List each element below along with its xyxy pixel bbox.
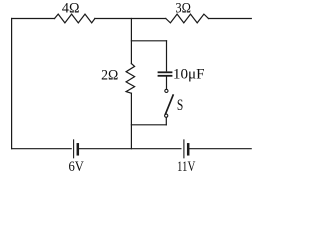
switch S lower contact circle [165,114,168,117]
wire capacitor to switch [166,77,168,90]
svg-text:S: S [177,97,183,114]
wire bottom-right segment [190,148,252,150]
wire top-left segment [12,18,55,20]
battery B1 6V short plate [77,144,80,154]
wire capacitor branch upper [166,41,168,71]
resistor R2 3ohm zigzag [166,14,209,23]
svg-text:11V: 11V [177,159,196,175]
capacitor C1 top plate [159,71,172,73]
switch S upper contact circle [165,89,168,92]
svg-text:3Ω: 3Ω [175,0,191,17]
wire middle branch upper [130,19,132,64]
resistor R3 2ohm zigzag [126,64,135,94]
wire switch to connector [165,117,167,124]
capacitor C1 bottom plate [159,75,172,77]
battery B2 11V long plate [183,140,185,158]
wire bottom-left segment [12,148,72,150]
resistor R1 4ohm zigzag [55,14,95,23]
battery B2 11V short plate [187,144,190,154]
wire left vertical [11,19,13,149]
wire top-middle segment [95,18,166,20]
svg-text:2Ω: 2Ω [101,67,118,84]
wire connector bottom [131,124,166,126]
wire top-right segment [209,18,252,20]
wire bottom-middle segment [79,148,181,150]
wire middle branch lower [130,93,132,148]
svg-text:4Ω: 4Ω [62,0,80,17]
svg-text:10μF: 10μF [173,67,205,83]
svg-text:6V: 6V [69,159,85,175]
battery B1 6V long plate [73,140,75,158]
wire connector top [131,40,166,42]
switch S lever [166,95,174,114]
